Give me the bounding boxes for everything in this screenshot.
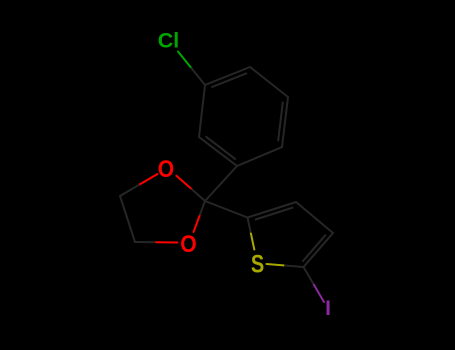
bond S-C5p carbon half: [285, 266, 304, 268]
svg-text:O: O: [158, 156, 174, 183]
bond O1-C4 carbon half: [120, 185, 139, 196]
bond C2-O1 red half: [176, 176, 190, 189]
thiophene double bond 2: [303, 235, 325, 261]
bond O1-C4 red half: [139, 174, 158, 185]
bond C5p-I carbon half: [304, 267, 314, 285]
bond C5-O2 carbon half: [135, 241, 156, 243]
thiophene ring carbons: [248, 202, 334, 267]
benzene double bond 2: [278, 102, 283, 140]
bond O2-C2 carbon half: [200, 201, 205, 215]
bond S-C5p yellow half: [267, 264, 286, 266]
benzene ring: [199, 67, 288, 166]
bond C4-C5: [120, 196, 135, 242]
bond Cl-C1 green half: [178, 52, 192, 69]
bond C2p-S carbon half: [248, 218, 251, 234]
bond Cl-C1 carbon half: [192, 68, 206, 85]
svg-text:O: O: [180, 231, 196, 258]
svg-text:Cl: Cl: [158, 29, 180, 53]
bond O2-C2 red half: [194, 215, 201, 233]
bond C5p-I purple half: [314, 285, 324, 302]
bond C2-O1 carbon half: [191, 188, 205, 201]
bond C5-O2 red half: [156, 241, 177, 243]
benzene double bond 3: [206, 137, 235, 159]
svg-text:I: I: [325, 297, 331, 320]
thiophene double bond 1: [256, 208, 293, 220]
bond C2p-S yellow half: [251, 234, 254, 250]
benzene double bond 1: [212, 73, 246, 87]
bond C2-C2p: [205, 201, 248, 218]
svg-text:S: S: [251, 250, 264, 278]
bond ipso-C2: [205, 166, 237, 201]
